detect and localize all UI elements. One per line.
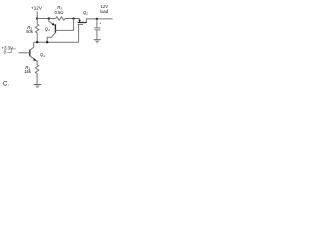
Q3 base wire to node C drop	[55, 29, 73, 31]
Q3 collector wire staircase to lower rail	[47, 33, 55, 43]
resistor R1 15k (vertical zigzag)	[35, 65, 38, 85]
svg-text:15k: 15k	[24, 69, 32, 74]
node E3 junction dot (Q3 emitter tap)	[48, 17, 50, 19]
Q2 drain wire up and right to output	[86, 19, 112, 23]
Q2 channel bar	[78, 22, 87, 24]
Q2 gate lead down to lower rail	[78, 25, 80, 43]
Q2 gate bar	[78, 24, 83, 26]
svg-text:Q2: Q2	[83, 10, 88, 16]
svg-text:load: load	[100, 9, 109, 14]
output node junction dot	[96, 18, 98, 20]
svg-text:Q3: Q3	[45, 26, 50, 32]
svg-text:+12V: +12V	[31, 6, 43, 11]
capacitor plates	[94, 27, 100, 29]
Q1 collector wire to lower rail	[30, 42, 34, 50]
Q1 emitter wire with NPN arrow	[30, 56, 37, 65]
Q2 source lead with down arrow	[79, 19, 81, 21]
svg-text:50k: 50k	[26, 29, 34, 34]
junction dot lower rail / Q3 collector	[46, 41, 48, 43]
junction dot lower rail / R2	[36, 41, 38, 43]
Q1 base wire	[19, 52, 30, 54]
Q3 emitter wire with arrow into bar	[49, 19, 54, 25]
svg-text:0.5Ω: 0.5Ω	[54, 10, 63, 15]
svg-text:Q1: Q1	[40, 52, 45, 58]
ground symbol (right)	[94, 39, 101, 41]
wire top rail A to R3	[37, 18, 55, 20]
transistor Q1 (NPN) bar	[29, 50, 31, 57]
capacitor lower lead	[96, 30, 98, 39]
resistor R3 0.5ohm (horizontal zigzag)	[56, 17, 65, 20]
resistor R2 50k (vertical zigzag)	[35, 19, 38, 43]
ground symbol (left)	[34, 84, 41, 86]
node C junction dot	[72, 17, 74, 19]
background	[0, 0, 120, 94]
wire rail R3 to node C	[65, 18, 80, 20]
svg-text:+: +	[99, 22, 101, 26]
svg-text:C.: C.	[3, 82, 9, 88]
node A junction dot	[36, 17, 38, 19]
wire node C drop to Q3 base	[73, 19, 75, 31]
transistor Q3 (PNP) bar	[54, 24, 56, 33]
input step waveform glyph	[7, 49, 16, 53]
wire +12V lead down	[36, 11, 38, 18]
lower rail wire	[34, 41, 79, 43]
capacitor lead from output node	[96, 19, 98, 28]
